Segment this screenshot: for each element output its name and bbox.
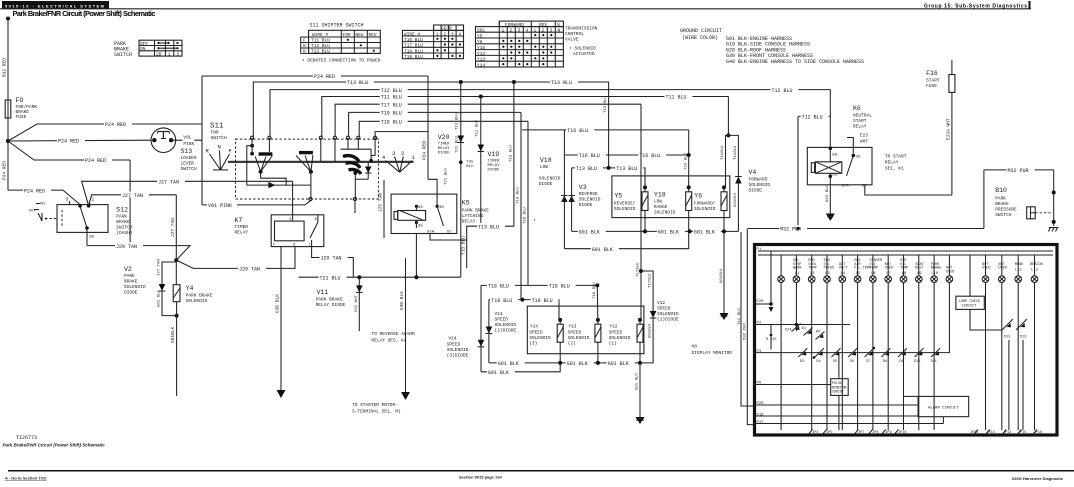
svg-text:Group 15: Sub-System Diagnosti: Group 15: Sub-System Diagnostics [924,4,1027,10]
wire K6 87 to E22A [865,92,952,195]
svg-text:• SOLENOID: • SOLENOID [569,46,596,52]
wire T12 BLU label row [798,113,830,228]
svg-text:G01 BLK: G01 BLK [592,247,613,253]
svg-text:SPEED: SPEED [657,306,671,312]
svg-text:T21 BLU: T21 BLU [455,136,459,153]
diode V14 speed solenoid [447,285,485,371]
svg-text:REV: REV [369,32,377,38]
svg-text:T12 BLU: T12 BLU [772,88,793,94]
node T13/K5 riser [512,80,516,84]
svg-text:(2)DIODE: (2)DIODE [495,328,517,334]
H8 bottom pin JP7 [855,430,864,436]
svg-text:D4: D4 [816,360,820,364]
svg-text:SOLENOID: SOLENOID [609,335,631,341]
svg-text:SOLENOID: SOLENOID [657,311,679,317]
svg-text:LATCHING: LATCHING [462,213,484,219]
svg-text:2: 2 [401,150,404,157]
svg-text:TEMP: TEMP [808,267,816,271]
svg-text:SPEED: SPEED [495,317,509,323]
svg-text:Park Brake/FNR Circuit (Power: Park Brake/FNR Circuit (Power Shift) Sch… [13,9,156,18]
wire T12 BLU to H8 P2 [738,232,754,406]
S11 interior diode right [355,138,375,179]
wire T18 riser long [524,121,537,285]
svg-text:T16 BLU: T16 BLU [567,128,588,134]
lamp L11 MFWD [1015,255,1023,430]
wire B12 RED [2,19,9,101]
svg-text:DIODE: DIODE [749,188,763,194]
wire G01 BLK row2 [564,155,688,253]
diode D15 [766,325,777,350]
wire G01 BLK row1 [572,228,739,236]
svg-text:VALVE: VALVE [565,37,579,43]
svg-text:Y18: Y18 [477,45,485,51]
svg-text:M32 PUR: M32 PUR [1008,168,1029,174]
S11 rotary contact arcs R [335,138,373,199]
svg-text:BLU: BLU [466,165,474,169]
wire J20 TAN row1 [87,242,190,260]
diode V13 speed solenoid [486,300,517,363]
svg-text:T13 BLU: T13 BLU [311,49,330,55]
svg-text:WHT: WHT [860,139,868,145]
diode D5 [832,348,841,364]
svg-text:RELAY: RELAY [488,164,501,168]
svg-text:T21 BLU: T21 BLU [445,168,449,185]
svg-text:OFF: OFF [29,210,37,214]
ground G30 left [277,390,286,398]
svg-text:RANGE: RANGE [654,204,668,210]
svg-text:RELAY: RELAY [235,230,249,236]
svg-text:T19 BLU: T19 BLU [532,298,553,304]
wire T18 BLU row [481,282,599,290]
svg-text:PARK BRAKE: PARK BRAKE [462,208,489,214]
H8 P20 stub [756,251,774,312]
H8 P17 row [754,423,943,425]
svg-text:4: 4 [459,31,462,37]
svg-text:SOLENOID: SOLENOID [568,335,590,341]
svg-text:A - Go to Section TOC: A - Go to Section TOC [5,476,47,481]
wire G30 BLK right [399,258,406,392]
svg-text:R4: R4 [816,331,820,335]
svg-text:P24 RED: P24 RED [314,74,335,80]
H8 bottom pin JP12 [970,430,978,436]
node B12 RED top [6,17,10,21]
svg-text:D12: D12 [1004,336,1010,340]
lamp L0 [778,255,785,430]
svg-text:SOLENOID: SOLENOID [447,347,469,353]
svg-text:3: 3 [550,28,553,34]
wire K5 87A T13 BLU [430,82,514,268]
svg-text:T17 BLU: T17 BLU [381,102,402,108]
svg-text:E23: E23 [860,133,868,139]
svg-text:D14: D14 [785,329,791,333]
svg-text:SOLENOID: SOLENOID [124,284,146,290]
svg-text:S11: S11 [210,123,224,131]
svg-text:RELAY: RELAY [438,147,451,151]
svg-text:FUSE: FUSE [16,114,27,120]
svg-text:T11 BLU: T11 BLU [311,38,330,44]
svg-text:SOLENOID: SOLENOID [694,206,716,212]
svg-text:T12 BLU: T12 BLU [381,88,402,94]
svg-text:LOW: LOW [540,164,548,170]
svg-text:J25 TAN: J25 TAN [378,193,384,212]
svg-text:J27 TAN: J27 TAN [158,180,179,186]
wire T13 BLU bus [253,79,609,137]
svg-text:SWITCH: SWITCH [181,166,198,172]
svg-text:SWITCH: SWITCH [114,52,132,58]
solenoid Y18 [654,185,692,231]
svg-text:TIMER: TIMER [235,224,249,230]
svg-text:TIMER: TIMER [438,143,451,147]
lamp L9 [915,255,923,430]
svg-text:DIODE: DIODE [539,181,553,187]
svg-text:V20: V20 [438,134,450,141]
diode V12 speed solenoid [640,271,679,363]
header right label [924,1,1031,10]
fuse F16 start [926,60,955,92]
fuse F9 [5,97,37,120]
H8 bottom pin JP5 [823,430,832,436]
svg-text:SPEED: SPEED [529,330,543,336]
S11 mid contact N [296,138,321,199]
H8 pin labels left [757,300,765,425]
svg-text:2B: 2B [89,236,94,240]
wire G01 BLK speed row2 [481,363,560,376]
svg-text:R: R [303,49,306,55]
wire M32 PUR to H8 P3 [744,227,800,425]
svg-text:Y12: Y12 [477,51,485,57]
svg-text:87: 87 [447,231,452,235]
relay K5 park brake latching [391,194,489,234]
wire T17 BLU bus [335,101,641,137]
svg-text:J27 TAN: J27 TAN [170,218,176,237]
wire P24 RED bus top [202,73,428,81]
svg-text:PARK BRAKE: PARK BRAKE [186,293,213,299]
H8 P3 diode row [754,352,950,354]
svg-text:(3): (3) [529,341,537,347]
svg-text:CIRCUIT: CIRCUIT [832,391,844,395]
wire G01 BLK to ground [636,363,640,417]
ground B10 [1049,228,1059,232]
node T11/V19 [479,95,483,99]
svg-text:WARN: WARN [793,267,801,271]
footer rule [8,470,1074,472]
svg-text:PARK: PARK [995,196,1006,202]
wire S11 bottom pin stub [354,201,356,213]
svg-text:T11 BLU: T11 BLU [666,95,687,101]
svg-text:85: 85 [832,174,837,178]
svg-text:T19 BLU: T19 BLU [491,298,512,304]
svg-text:J27 TAN: J27 TAN [122,193,143,199]
svg-text:G01 BLK: G01 BLK [498,361,519,367]
svg-text:3: 3 [451,31,454,37]
svg-text:PINK: PINK [183,141,194,147]
svg-text:9015-10 - ELECTRICAL SYSTEM: 9015-10 - ELECTRICAL SYSTEM [5,3,105,8]
wire J27 TAN row1 [82,178,293,215]
lamp L2 [808,255,816,430]
svg-text:REVERSE/: REVERSE/ [614,201,636,207]
svg-text:G01 BLK: G01 BLK [658,230,679,236]
svg-text:DIODE: DIODE [488,169,501,173]
wire T12 BLU bus [270,86,830,137]
svg-text:T11BLU: T11BLU [734,145,738,160]
svg-text:RELAY: RELAY [462,219,476,225]
svg-text:Y12: Y12 [609,324,617,330]
svg-text:JP4: JP4 [812,431,818,435]
svg-text:MFWD: MFWD [1015,263,1023,267]
svg-text:ON: ON [40,203,45,207]
svg-text:G01 BLK: G01 BLK [488,370,509,376]
diode V3 reverse solenoid [568,168,600,232]
wire M32 PUR to B10 [984,167,1054,229]
wire T12 riser to K6 [829,90,831,149]
svg-text:2: 2 [542,28,545,34]
svg-text:(1)DIODE: (1)DIODE [657,317,679,323]
wire P24 RED down left [2,141,81,205]
svg-text:PARK: PARK [124,273,135,279]
svg-text:VOLT: VOLT [839,267,847,271]
lamp right not used 2 [998,255,1006,430]
svg-text:T18 BLU: T18 BLU [381,120,402,126]
svg-text:(WIRE COLOR): (WIRE COLOR) [682,35,718,41]
node P24 junction [6,139,10,143]
svg-text:JP10: JP10 [898,431,906,435]
diode V4 forward solenoid [734,169,770,231]
wire T19 BLU bus [349,109,521,137]
svg-text:V12: V12 [657,300,665,306]
svg-text:CIRCUIT: CIRCUIT [962,305,977,309]
H8 P2 row [754,323,850,326]
svg-text:V2: V2 [124,266,132,273]
svg-text:LEVER: LEVER [181,161,195,167]
svg-text:30: 30 [439,206,444,210]
svg-text:T13 BLU: T13 BLU [616,166,637,172]
svg-text:RELAY DIODE: RELAY DIODE [316,302,346,308]
svg-text:LOW: LOW [654,199,662,205]
diode D9 [898,348,907,364]
svg-text:SPEED: SPEED [609,330,623,336]
H8 internal bus P1 [757,248,1054,255]
svg-text:T18 BLU: T18 BLU [524,207,528,224]
wire K5 85 to T21 row [414,234,418,280]
svg-text:T11BLU: T11BLU [721,145,725,160]
svg-text:TI26773: TI26773 [16,435,37,441]
wire J27 TAN row2 [89,192,177,261]
lamp L3 [824,255,835,430]
diode D12 [1002,319,1013,430]
svg-text:V13: V13 [495,311,503,317]
svg-text:87A: 87A [427,231,435,235]
svg-text:T19 BLU: T19 BLU [381,111,402,117]
svg-text:JP15: JP15 [1018,431,1026,435]
solenoid Y5 [614,185,648,231]
diode V18 low solenoid [539,157,568,202]
svg-text:USED: USED [998,267,1006,271]
svg-text:PARK: PARK [116,214,127,220]
svg-text:S-TERMINAL SE1, M1: S-TERMINAL SE1, M1 [352,409,401,415]
svg-text:START: START [926,78,940,84]
svg-text:F: F [229,148,232,155]
wire V0L PINK [171,124,202,205]
node J27/V2 junction [174,258,178,262]
wire G01 BLK speed row1 [489,360,642,368]
svg-text:SE1, K1: SE1, K1 [885,166,904,172]
svg-text:BRAKE: BRAKE [124,279,138,285]
svg-text:USED: USED [885,267,893,271]
svg-text:Y4: Y4 [186,285,194,292]
svg-text:N: N [557,22,560,28]
svg-text:Y5: Y5 [477,33,483,39]
svg-text:RELAY: RELAY [853,124,867,130]
svg-text:(3)DIODE: (3)DIODE [447,353,469,359]
wire J20 TAN row3 [312,247,354,278]
svg-text:SOLENOID: SOLENOID [539,176,561,182]
svg-text:T11 BLU: T11 BLU [476,120,480,137]
label to reverse alarm relay [371,331,415,344]
park brake switch table label [114,41,132,58]
svg-text:1: 1 [534,28,537,34]
svg-text:T13 BLU: T13 BLU [455,113,459,130]
lamp L1 [793,255,801,331]
svg-text:Section 9015 page 134: Section 9015 page 134 [459,475,502,480]
switch S13 loader lever [151,128,197,172]
S11 shifter switch table [301,23,381,64]
svg-text:FORWARD: FORWARD [505,22,524,28]
svg-text:USED: USED [982,267,990,271]
svg-text:V19: V19 [488,151,500,158]
svg-text:1: 1 [502,28,505,34]
wire J25 TAN [378,180,385,238]
diode D6 [848,348,857,364]
svg-text:Y13: Y13 [568,324,576,330]
S11 interior diode wire [247,172,311,189]
wire G01 BLK Y6 ground [720,231,729,320]
svg-text:PRESS: PRESS [824,267,835,271]
resistor R4 [816,331,825,340]
svg-text:3: 3 [66,197,69,203]
svg-text:JP8: JP8 [872,431,878,435]
svg-text:P24 RED: P24 RED [58,139,79,145]
ground G01 speed [636,417,645,424]
svg-text:V3: V3 [579,184,587,191]
wire J20 TAN row2 [176,247,295,273]
solenoid Y4 [170,260,213,396]
wire P24 RED fan lower [8,141,130,246]
lamp L8 [900,255,908,430]
svg-text:FNR: FNR [211,130,219,136]
svg-text:1: 1 [92,197,95,203]
svg-text:OFF: OFF [140,41,148,47]
S11 bottom pins [309,197,357,200]
wire T19 BLU row [489,296,559,320]
svg-text:BRAKE: BRAKE [995,201,1009,207]
wire M32 PUR row [748,225,984,233]
H8 bottom pin JP9 [882,430,891,436]
svg-text:3: 3 [518,28,521,34]
svg-text:V01 PINK: V01 PINK [208,203,232,209]
solenoid Y14 [529,318,563,363]
H8 bottom pin JP10 [895,430,906,436]
gear table [402,25,463,60]
diode D3 [798,348,807,364]
S11 top pins [251,136,377,139]
svg-text:TRANSMISSION: TRANSMISSION [565,26,598,32]
svg-text:TO REVERSE ALARM: TO REVERSE ALARM [371,331,415,337]
svg-text:T13 BLU: T13 BLU [604,96,608,113]
wire T16 BLU row2 [564,130,688,159]
S11 right fan 4 3 2 1 [382,150,416,172]
svg-text:(DASH): (DASH) [116,230,132,236]
svg-text:4: 4 [526,28,529,34]
svg-text:N: N [218,144,221,151]
svg-text:D5: D5 [833,360,837,364]
svg-text:D13: D13 [1020,336,1026,340]
park brake switch table [139,40,182,57]
svg-text:G30 BLK: G30 BLK [275,294,281,313]
svg-text:B12 RED: B12 RED [2,58,8,77]
svg-text:T13 BLU: T13 BLU [347,80,368,86]
svg-text:J20 TAN: J20 TAN [239,267,260,273]
diode D14 [785,324,801,333]
svg-text:TO STARTER MOTOR-: TO STARTER MOTOR- [352,402,398,408]
ground G30 right [401,392,410,400]
wire T19 riser long [517,112,521,299]
solenoid Y13 [568,282,601,363]
svg-text:G01 BLK: G01 BLK [567,361,588,367]
svg-text:P24 RED: P24 RED [422,141,428,160]
solenoid Y12 [609,318,643,363]
switch S12 park brake (dash) [29,197,133,246]
svg-text:N: N [303,43,306,49]
svg-text:SOLENOID: SOLENOID [529,335,551,341]
svg-text:E02 WHT: E02 WHT [355,295,359,312]
svg-text:D8: D8 [883,360,887,364]
svg-text:T16 BLU: T16 BLU [684,153,688,170]
wire T18 BLU bus [359,118,528,137]
svg-text:T11 BLU: T11 BLU [381,95,402,101]
svg-text:2: 2 [510,28,513,34]
svg-text:Y6: Y6 [477,39,483,45]
svg-text:BRAKE: BRAKE [931,267,942,271]
svg-text:G30 BLK: G30 BLK [399,291,405,310]
svg-text:T16 BLU: T16 BLU [639,153,660,159]
wire F9 to junction [7,118,9,141]
solenoid Y6 [694,185,727,231]
svg-text:Y6: Y6 [694,193,702,200]
svg-text:(1): (1) [609,341,617,347]
svg-text:JP13: JP13 [987,431,995,435]
svg-text:FIL.TEMP: FIL.TEMP [854,267,871,271]
svg-text:V11: V11 [317,289,329,296]
H8 bottom pin JP15 [1018,430,1027,436]
svg-text:T18 BLU: T18 BLU [404,48,423,54]
lamp L12 BEACON [1030,255,1043,430]
svg-text:N: N [558,28,561,34]
svg-text:REV: REV [539,22,547,28]
svg-text:P24 RED: P24 RED [2,161,8,180]
svg-text:V14: V14 [448,336,456,342]
svg-text:T16 BLU: T16 BLU [579,153,600,159]
svg-text:K5: K5 [462,200,470,207]
svg-text:J20 TAN: J20 TAN [116,244,137,250]
svg-text:86: 86 [418,206,423,210]
svg-text:2B: 2B [156,52,162,58]
svg-text:V0L: V0L [183,135,191,141]
svg-text:TEMP: TEMP [900,267,908,271]
svg-text:SWITCH: SWITCH [995,212,1012,218]
wire V01 PINK row [202,201,311,210]
svg-text:P24 RED: P24 RED [85,158,106,164]
svg-text:D3: D3 [800,360,804,364]
